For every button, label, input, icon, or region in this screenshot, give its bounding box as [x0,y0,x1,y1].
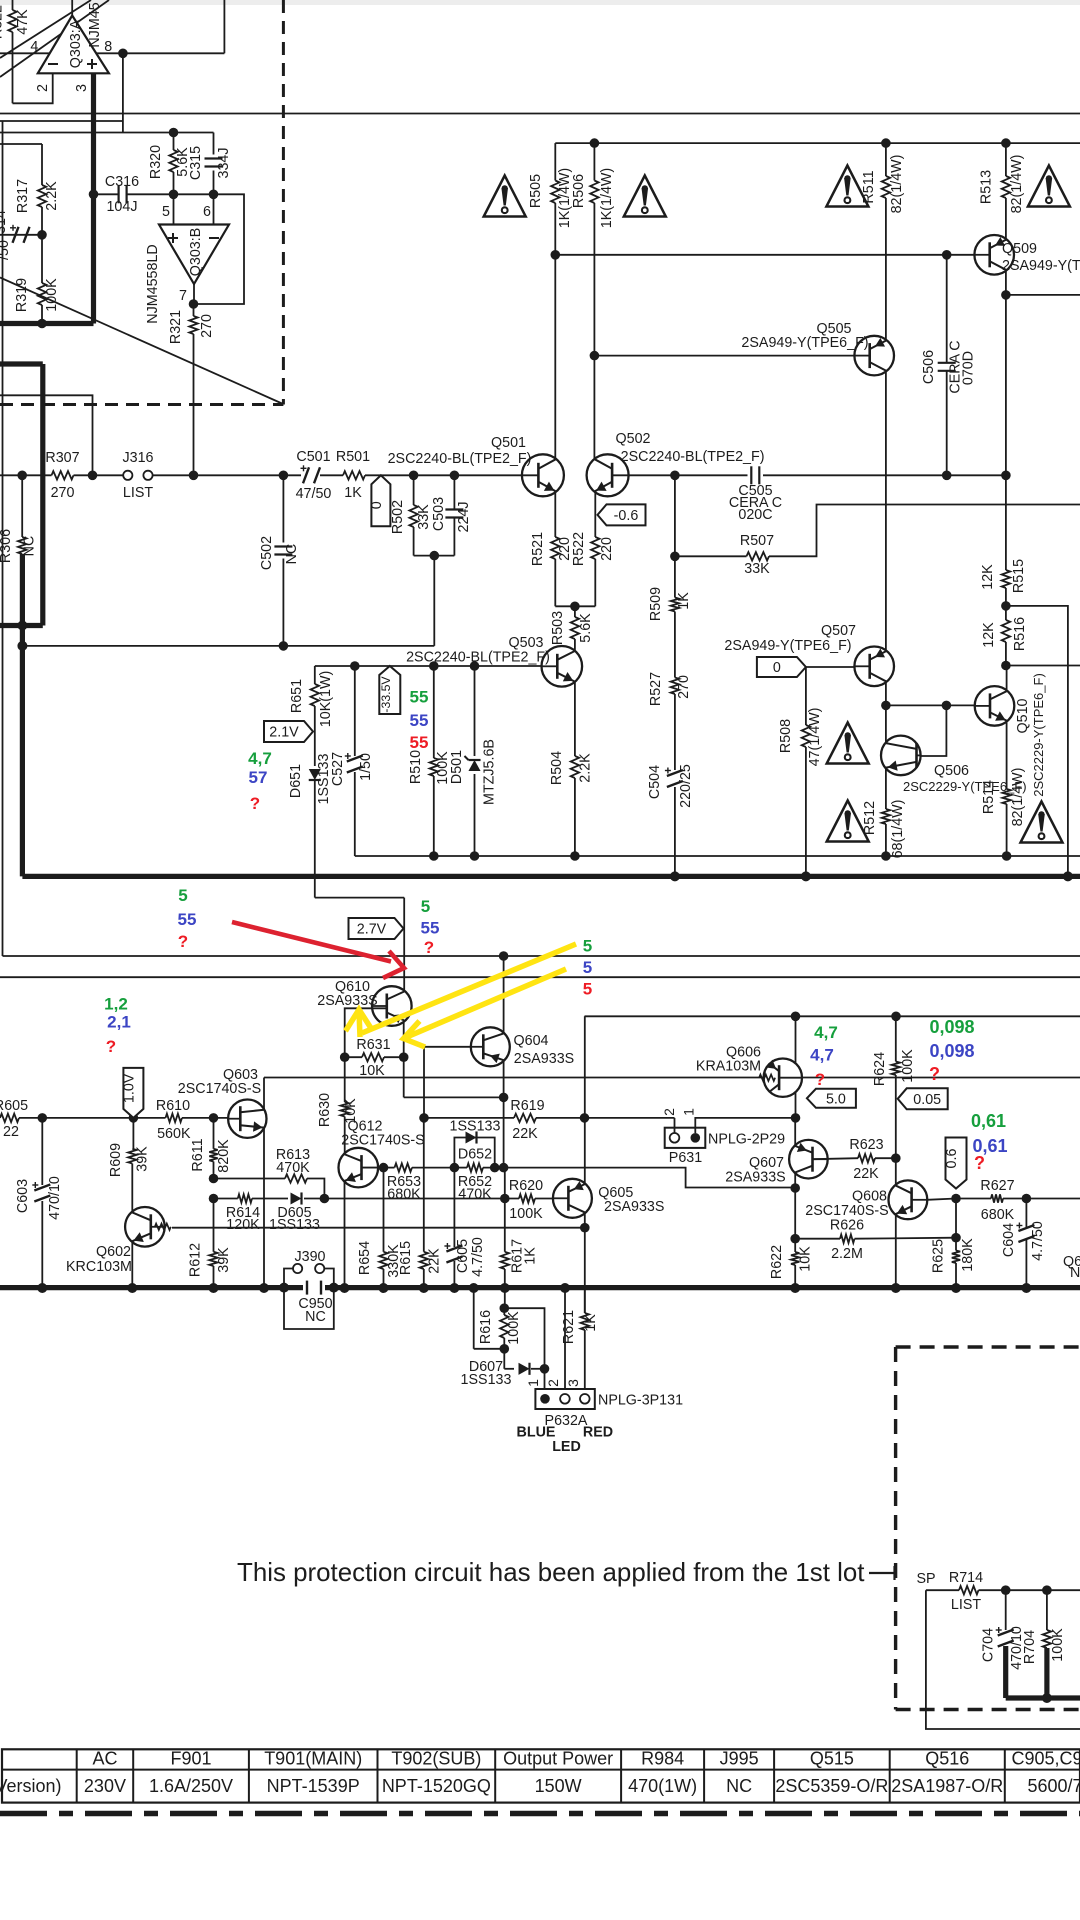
svg-text:5: 5 [583,958,592,977]
junction [450,1163,460,1173]
junction [891,1012,901,1022]
resistor R616 [478,1303,522,1348]
transistor Q505 [741,321,894,375]
wire [213,171,215,195]
junction [1001,138,1011,148]
colored note 5 green [421,897,430,916]
svg-text:120K: 120K [226,1217,260,1233]
svg-text:55: 55 [410,688,429,707]
svg-text:020C: 020C [738,507,772,523]
label SP [916,1571,935,1587]
svg-text:5.6K: 5.6K [578,613,594,643]
svg-text:1/50: 1/50 [358,753,374,781]
flag 1.0V [121,1068,143,1118]
svg-text:R714: R714 [949,1570,983,1586]
svg-text:NPT-1539P: NPT-1539P [267,1776,360,1796]
resistor R626 [795,1218,956,1263]
wire rail A [3,955,1080,957]
svg-text:Q509: Q509 [1002,241,1037,257]
wire thick [40,364,45,626]
svg-text:2: 2 [545,1379,561,1387]
resistor R506 [571,168,615,228]
svg-text:R624: R624 [872,1052,888,1086]
svg-text:R630: R630 [317,1093,333,1127]
warning triangle [827,723,869,764]
wire [554,143,556,180]
svg-text:R511: R511 [861,170,877,203]
svg-text:C501: C501 [296,449,330,465]
jumper J316 [122,450,153,501]
capacitor C315 [188,146,232,180]
svg-text:R609: R609 [108,1143,124,1177]
svg-text:2,1: 2,1 [107,1013,131,1032]
svg-text:10K(1W): 10K(1W) [318,671,334,727]
wire base Q505 [594,355,854,357]
flag 0 [369,475,391,526]
resistor R704 [1022,1590,1066,1698]
junction [189,299,199,309]
junction [570,602,580,612]
wire [344,1117,346,1154]
wire [174,193,214,195]
svg-text:C704: C704 [981,1628,997,1662]
wire [1006,666,1008,691]
junction [1042,1693,1052,1703]
transistor Q607 [725,1140,827,1186]
resistor R613 [214,1147,311,1183]
svg-text:334J: 334J [216,147,232,178]
wire [535,1198,553,1200]
wire long diagonal [0,278,282,404]
junction [209,1113,219,1123]
svg-text:R522: R522 [571,532,587,566]
junction [450,471,460,481]
note protection text [237,1559,864,1587]
capacitor C527 [330,666,374,856]
wire [22,645,434,647]
flag -33.5V [379,666,401,714]
svg-text:070D: 070D [961,351,977,385]
wire Q608 emitter [895,1215,897,1288]
junction [209,1174,219,1184]
svg-text:R504: R504 [549,751,565,785]
svg-text:3: 3 [74,84,90,92]
capacitor C316 [94,174,174,215]
junction [329,1283,339,1293]
wire [74,474,128,476]
wire [182,1117,228,1119]
capacitor C504 [647,694,694,876]
transistor Q610 [317,979,411,1026]
wire rail 2 [0,120,123,122]
svg-text:LIST: LIST [123,485,153,501]
svg-text:Q502: Q502 [616,431,651,447]
junction [590,138,600,148]
wire Q605 emitter [584,1016,586,1183]
svg-text:R615: R615 [398,1241,414,1275]
wire [885,198,887,340]
svg-text:This protection circuit has be: This protection circuit has been applied… [237,1559,864,1587]
flag 0.05 [898,1088,948,1109]
svg-text:R505: R505 [528,174,544,208]
wire base Q509 [555,254,974,256]
svg-text:2SC1740S-S: 2SC1740S-S [341,1133,424,1149]
junction [469,1283,479,1293]
wire thick [0,361,43,366]
svg-text:12K: 12K [980,564,996,590]
svg-text:R508: R508 [778,719,794,753]
wire pin8 [122,53,124,132]
resistor R513 [979,143,1026,213]
junction [350,661,360,671]
svg-text:82(1/4W): 82(1/4W) [889,155,905,214]
svg-text:8: 8 [104,39,112,55]
svg-text:2SC2240-BL(TPE2_F): 2SC2240-BL(TPE2_F) [621,449,765,465]
svg-text:NC: NC [22,536,38,557]
svg-text:C503: C503 [431,497,447,531]
svg-text:1SS133: 1SS133 [450,1119,501,1135]
svg-text:C905,C9: C905,C9 [1011,1749,1080,1769]
colored note 0,098 green [929,1017,974,1037]
svg-text:Q510: Q510 [1015,698,1031,733]
junction [279,471,289,481]
transistor Q507 [724,623,894,686]
svg-text:100K: 100K [1050,1628,1066,1662]
wire [594,559,596,606]
colored note 0,61 green [971,1111,1006,1131]
svg-text:5: 5 [583,937,592,956]
svg-text:100K: 100K [509,1206,543,1222]
dashed border [282,0,285,405]
capacitor C604 [1001,1199,1046,1289]
junction [551,250,561,260]
capacitor C605 [444,1168,486,1288]
junction [891,1153,901,1163]
svg-text:224J: 224J [456,501,472,532]
wire diagonal B [0,0,91,58]
svg-text:NPT-1520GQ: NPT-1520GQ [382,1776,491,1796]
svg-text:2SA933S: 2SA933S [604,1199,664,1215]
warning triangle [826,166,868,207]
svg-text:2.2K: 2.2K [44,181,60,211]
junction [670,552,680,562]
wire thin rail [355,855,1080,857]
colored note 55 red [410,733,429,752]
svg-text:R616: R616 [478,1310,494,1344]
svg-text:C502: C502 [259,536,275,570]
wire loop [504,1308,544,1369]
svg-text:R521: R521 [530,532,546,566]
flag -0.6 [598,504,646,525]
svg-text:?: ? [929,1064,940,1084]
junction [409,471,419,481]
junction [540,1364,550,1374]
resistor R522 [571,491,615,567]
wire pin7 [179,284,194,304]
junction [670,871,680,881]
svg-text:2SC2240-BL(TPE2_F): 2SC2240-BL(TPE2_F) [406,650,550,666]
svg-text:R984: R984 [641,1749,684,1769]
wire rail top [0,113,1080,115]
junction [259,1283,269,1293]
resistor R615 [398,1118,443,1288]
wire thick bus [22,874,1080,879]
yellow arrow 1 [346,944,577,1037]
junction [17,471,27,481]
svg-text:104J: 104J [106,199,137,215]
junction [580,1113,590,1123]
svg-text:R515: R515 [1011,559,1027,593]
capacitor C502 [259,475,300,646]
junction [127,1283,137,1293]
svg-text:R506: R506 [571,174,587,208]
resistor R621 [561,1288,599,1389]
svg-text:4.7/50: 4.7/50 [470,1237,486,1277]
svg-text:R631: R631 [356,1037,390,1053]
wire thick bus lower [0,1285,1080,1290]
junction [1042,1585,1052,1595]
flag 5.0 [807,1089,856,1108]
resistor R609 [108,1118,151,1177]
junction [429,851,439,861]
wire [403,898,405,991]
junction [340,1052,350,1062]
dashed box SP [896,1347,1080,1710]
svg-text:1K(1/4W): 1K(1/4W) [599,168,615,228]
resistor R521 [530,491,573,567]
transistor Q604 [471,1027,574,1067]
svg-text:270: 270 [51,485,75,501]
svg-text:J995: J995 [720,1749,759,1769]
label Q60 (clipped) [1063,1254,1080,1281]
junction [37,1283,47,1293]
junction [189,471,199,481]
junction [1001,471,1011,481]
svg-text:NJM45: NJM45 [87,2,103,47]
resistor R651 [289,666,334,727]
wire Q602 base [172,1227,585,1229]
svg-text:22: 22 [3,1124,19,1140]
svg-text:R317: R317 [15,179,31,213]
resistor R501 [336,449,370,501]
wire main [0,474,52,476]
junction [470,851,480,861]
svg-text:4.7/50: 4.7/50 [1030,1221,1046,1261]
wire step [504,1168,796,1188]
colored note 4,7 green [248,749,272,768]
svg-text:N: N [1070,1265,1080,1281]
svg-text:2SA949-Y(T: 2SA949-Y(T [1002,258,1080,274]
junction [470,661,480,671]
svg-text:1K: 1K [676,592,692,610]
junction [37,230,47,240]
wire rail B [0,976,1080,978]
resistor R511 [861,143,905,213]
resistor R614 [214,1194,261,1233]
svg-text:Q515: Q515 [810,1749,854,1769]
junction [419,1283,429,1293]
junction [1001,661,1011,671]
wire pin4 line [0,52,224,54]
junction [379,1283,389,1293]
resistor R611 [190,1118,232,1173]
junction [209,1283,219,1293]
wire bypass [1006,606,1068,877]
svg-text:2SC2229-Y(TPE6_F): 2SC2229-Y(TPE6_F) [1031,673,1046,797]
wire [627,474,675,476]
svg-text:2.7V: 2.7V [357,922,387,938]
svg-text:J390: J390 [294,1249,325,1265]
svg-text:33K: 33K [416,504,432,530]
wire [555,605,595,607]
wire Q610 collector [403,1021,405,1097]
wire [895,1075,897,1185]
junction [951,1283,961,1293]
wire Q604 base [424,1047,471,1118]
junction [129,1113,139,1123]
transistor Q605 [553,1179,665,1218]
resistor R622 [769,1239,814,1288]
svg-text:Q602: Q602 [96,1244,131,1260]
colored note 0,098 blue [929,1041,974,1061]
svg-text:SP: SP [916,1571,935,1587]
colored note ? red [106,1037,116,1056]
wire [173,172,175,194]
junction [499,951,509,961]
transistor Q603 [178,1067,267,1138]
svg-text:D501: D501 [449,750,465,784]
wire [213,1162,215,1179]
wire [593,203,595,460]
colored note 5 blue [583,958,592,977]
junction [499,1163,509,1173]
svg-text:22K: 22K [512,1126,538,1142]
capacitor C501 [283,449,343,502]
connector P631 [661,1108,785,1166]
svg-text:22K: 22K [427,1248,443,1274]
svg-text:1SS133: 1SS133 [269,1217,320,1233]
junction [429,661,439,671]
svg-text:180K: 180K [960,1238,976,1272]
junction [951,1233,961,1243]
svg-text:R605: R605 [0,1098,28,1114]
svg-text:560K: 560K [157,1126,191,1142]
svg-text:220/25: 220/25 [678,764,694,808]
wire [384,1167,455,1169]
svg-text:1K: 1K [523,1247,539,1265]
svg-text:2SA933S: 2SA933S [514,1051,574,1067]
colored note 55 blue [410,711,429,730]
resistor R510 [408,666,451,856]
label NJM4558 (clipped) [87,2,103,47]
wire [41,207,43,235]
resistor R504 [549,681,594,856]
wire pin2 line [564,1288,566,1389]
svg-text:R516: R516 [1012,617,1028,651]
colored note 5 green [583,937,592,956]
svg-text:?: ? [178,932,188,951]
svg-text:C527: C527 [330,752,346,786]
colored note ? red [815,1070,825,1089]
junction [209,1194,219,1204]
warning triangle [827,801,869,842]
wire rail 3 [0,132,214,134]
wire [554,559,556,606]
svg-text:R625: R625 [931,1239,947,1273]
svg-text:R623: R623 [849,1137,883,1153]
wire [433,556,435,646]
svg-text:0: 0 [369,501,385,509]
resistor R612 [188,1199,233,1289]
junction [1001,601,1011,611]
warning triangle [1028,166,1070,207]
svg-text:0.6: 0.6 [944,1149,960,1169]
svg-text:D652: D652 [458,1147,492,1163]
svg-text:Q303:A: Q303:A [68,19,84,68]
svg-text:R514: R514 [981,780,997,814]
svg-text:100K: 100K [44,278,60,312]
junction [88,471,98,481]
wire [1006,294,1080,296]
flag 2.1V [264,721,313,742]
resistor R508 [778,667,823,876]
svg-text:LIST: LIST [951,1597,981,1613]
resistor R515 [980,475,1027,593]
svg-text:4,7: 4,7 [248,749,272,768]
svg-text:C316: C316 [105,174,139,190]
svg-text:C604: C604 [1001,1223,1017,1257]
svg-text:2SC1740S-S: 2SC1740S-S [178,1081,261,1097]
resistor R502 [390,475,432,534]
junction [580,1223,590,1233]
transistor Q602 [66,1207,171,1275]
colored note 57 blue [249,768,268,787]
wire Q608 base [927,1199,956,1200]
wire Q607 emitter [794,1118,796,1145]
svg-text:55: 55 [178,910,197,929]
warning triangle [484,176,526,217]
capacitor C603 [15,1118,63,1288]
wire Q604 collector [503,1061,505,1168]
resistor R509 [648,556,692,621]
junction [951,1194,961,1204]
svg-text:55: 55 [410,733,429,752]
svg-text:R611: R611 [190,1138,206,1171]
svg-text:NC: NC [284,544,300,565]
wire Q610 base loop [345,1008,387,1057]
wire base Q503 [315,665,542,667]
colored note ? red [178,932,188,951]
svg-text:LED: LED [552,1439,581,1455]
wire thick [20,554,25,876]
wire [593,143,595,180]
junction [500,1283,510,1293]
wire [131,1164,133,1212]
junction [320,1194,330,1204]
svg-text:5: 5 [421,897,430,916]
wire thick left [0,321,94,326]
wire [554,203,556,460]
svg-text:D651: D651 [288,764,304,798]
svg-text:2SA933S: 2SA933S [317,993,377,1009]
resistor R630 [317,1057,359,1127]
svg-text:R620: R620 [509,1178,543,1194]
wire pin1 [695,1118,795,1133]
svg-text:1.6A/250V: 1.6A/250V [149,1776,233,1796]
svg-text:J316: J316 [122,450,153,466]
svg-text:R651: R651 [289,679,305,713]
svg-text:R612: R612 [188,1243,204,1277]
